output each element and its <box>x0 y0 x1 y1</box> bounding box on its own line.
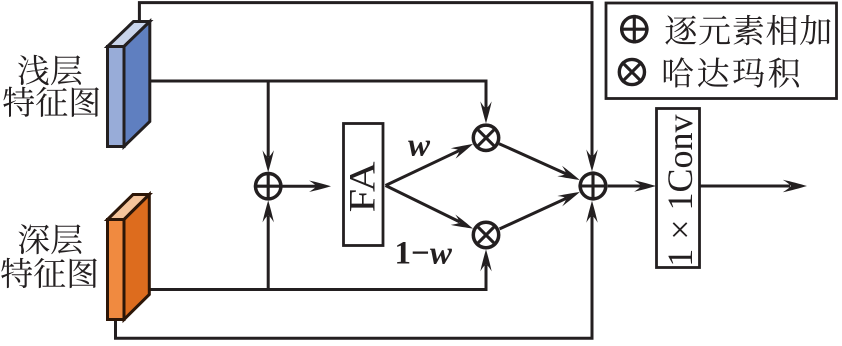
svg-text:FA: FA <box>343 161 384 212</box>
wire shallow feature out (y=81) to top multiply node <box>149 81 492 123</box>
wire deep feature out (y=289.5) to bottom multiply node <box>143 249 492 289</box>
wire branch down to plus node U1 <box>263 81 274 172</box>
plus node U2 (element-wise add) <box>578 171 607 200</box>
shallow feature map 3D slab (blue) <box>108 22 150 147</box>
wire final output arrow <box>700 180 807 193</box>
multiply node M1 (Hadamard, top) <box>473 125 498 150</box>
svg-text:1−w: 1−w <box>395 235 453 271</box>
wire top: shallow box top to plus node U2 <box>139 3 597 172</box>
legend text element-wise addition <box>665 15 830 45</box>
FA box <box>343 124 384 246</box>
wire bottom multiply node to plus node U2 <box>500 187 583 229</box>
legend plus symbol <box>620 15 649 44</box>
wire top multiply node to plus node U2 <box>499 144 582 185</box>
label w <box>408 127 431 163</box>
wire branch up to plus node U1 bottom <box>263 200 274 289</box>
label deep feature map line2 (te zheng tu) <box>1 258 97 288</box>
deep feature map 3D slab (orange) <box>108 195 150 320</box>
wire plus U1 output to FA box <box>282 181 331 192</box>
label shallow feature map line2 (te zheng tu) <box>3 87 99 117</box>
legend multiply symbol <box>619 59 644 84</box>
1x1 conv box <box>657 109 701 268</box>
multiply node M2 (Hadamard, bottom) <box>473 222 498 247</box>
wire FA to top multiply node (weight w) <box>386 139 476 186</box>
plus node U1 (element-wise add) <box>254 172 283 201</box>
label 1-w <box>395 235 453 271</box>
svg-text:w: w <box>408 127 431 163</box>
legend text hadamard product <box>664 57 799 87</box>
label deep feature map line1 (shen ceng) <box>19 224 82 254</box>
wire FA to bottom multiply node (weight 1-w) <box>386 186 476 234</box>
wire bottom: deep box bottom to plus node U2 bottom <box>116 201 598 339</box>
wire plus U2 output to 1x1 conv box <box>608 180 656 191</box>
svg-text:1 × 1Conv: 1 × 1Conv <box>660 114 700 266</box>
legend box <box>606 3 837 99</box>
label shallow feature map line1 (qian ceng) <box>18 55 82 85</box>
